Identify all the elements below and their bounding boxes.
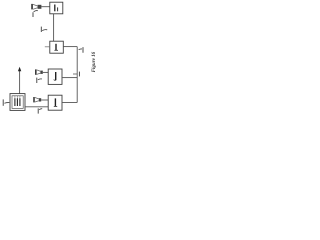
wire block D to bus [62, 77, 77, 79]
block B [50, 41, 64, 53]
label 1 (S1) [33, 11, 38, 17]
wire block B to bus [63, 46, 77, 48]
block C (keypad) [10, 94, 25, 111]
label 1 (S3) [38, 108, 42, 113]
wire S2 to block D [43, 71, 48, 73]
svg-text:Figure 16: Figure 16 [92, 51, 97, 72]
block E [48, 95, 62, 110]
loudspeaker S1 [31, 4, 41, 9]
wire block E to bus [62, 102, 77, 104]
stub left of block B [45, 46, 50, 48]
bus (vertical wire) [76, 47, 78, 103]
label 1 (S2) [37, 78, 42, 83]
block A [50, 2, 63, 14]
wire block C to block E [25, 106, 48, 108]
block D [48, 69, 62, 84]
label 2 (bus mid) [78, 72, 80, 77]
label 5 (wire A-B) [41, 27, 47, 32]
wire S1 to block A [41, 6, 49, 8]
label 9 (block C) [3, 99, 9, 105]
loudspeaker S3 [33, 97, 41, 102]
wire S3 to block E [41, 99, 48, 101]
wire block A to block B [53, 14, 55, 41]
tick on bus [73, 73, 77, 75]
loudspeaker S2 [35, 69, 43, 74]
arrow up from block C [18, 67, 21, 94]
label 7 (bus top) [79, 47, 83, 53]
